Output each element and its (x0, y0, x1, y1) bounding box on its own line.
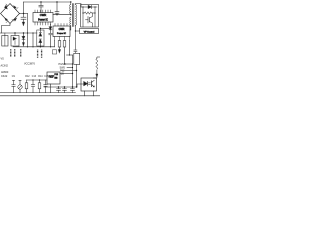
svg-text:ACIN2: ACIN2 (1, 65, 9, 68)
junction node (32, 79, 33, 80)
resistor R4 (63, 41, 66, 65)
ground (22, 22, 24, 26)
U1 bottom pins (35, 22, 51, 25)
cap C3 (12, 80, 16, 92)
diode D5 (49, 24, 53, 47)
REF box U3 (47, 72, 60, 84)
vertical x27 branch (27, 14, 29, 47)
wire opto bottom1 (84, 91, 86, 96)
wire aux winding to U2 (69, 26, 72, 30)
vertical x33 branch (32, 33, 34, 47)
wire secondary top (75, 4, 81, 7)
junction node (39, 79, 40, 80)
wire mid bottom (13, 46, 55, 48)
bridge rectifier BR1 (1, 4, 20, 24)
wire bridge+ output (20, 13, 28, 15)
svg-text:I1B: I1B (60, 72, 64, 75)
wire secondary bottom (75, 25, 79, 31)
transformer T1 (70, 2, 77, 27)
cap C5 (44, 80, 48, 93)
IC U1 startup box (33, 13, 53, 23)
wire SW5 (67, 67, 73, 69)
ground rail 2 (0, 95, 100, 97)
wire PGND (65, 63, 73, 65)
svg-text:A0860: A0860 (1, 71, 9, 74)
junction node (70, 1, 71, 2)
junction node (94, 6, 95, 7)
svg-text:CWR: CWR (59, 28, 65, 31)
junction node (64, 86, 65, 87)
varistor RV1 (18, 80, 22, 92)
wire opto left (77, 84, 81, 87)
pin label texts (1, 58, 66, 78)
capacitor C10 (63, 87, 67, 93)
junction node (72, 67, 73, 68)
U2 top pins (55, 24, 67, 27)
snubber block box (81, 5, 99, 28)
junction node (82, 6, 83, 7)
wire secondary return down (74, 31, 76, 50)
U1 top pins (35, 10, 51, 13)
wire bridge- to mid rail (2, 24, 11, 34)
resistor R5 (38, 80, 41, 93)
rotated tiny labels (11, 49, 42, 58)
diode D2 (88, 5, 91, 8)
wire down right1 (76, 71, 78, 88)
diode D4 (22, 33, 25, 46)
wire snub top (40, 27, 50, 29)
svg-text:C15: C15 (44, 76, 49, 78)
component id labels bottom (12, 76, 49, 78)
svg-text:Power IC: Power IC (57, 32, 66, 35)
U2 bottom pins (55, 37, 70, 41)
svg-text:VCC3876: VCC3876 (24, 62, 35, 65)
capacitor C11 (71, 87, 75, 93)
svg-text:R14: R14 (38, 76, 43, 78)
output bus (44, 86, 77, 88)
resistor R2 zigzag (83, 12, 95, 14)
wire snubber right (94, 7, 96, 27)
junction node (14, 32, 15, 33)
svg-text:Power IC: Power IC (38, 18, 48, 21)
capacitor C8 (74, 50, 77, 53)
capacitor C9 (57, 87, 61, 93)
vertical label smudge (20, 49, 22, 57)
vertical label smudge (10, 49, 12, 57)
vertical label smudge (41, 50, 43, 58)
wire pin1 (54, 41, 56, 47)
choke L1 (2, 36, 8, 47)
junction node (72, 73, 73, 74)
junction node (40, 28, 41, 29)
junction node (50, 46, 51, 47)
vertical label smudge (14, 49, 16, 57)
module D3 box (11, 36, 19, 47)
capacitor C1 (21, 2, 26, 22)
right bus (72, 55, 74, 87)
junction node (27, 32, 28, 33)
junction node (58, 86, 59, 87)
svg-text:CWR: CWR (40, 13, 46, 17)
svg-text:CK22: CK22 (1, 75, 8, 78)
cap C4 (31, 80, 35, 93)
wire HV rail (24, 1, 71, 3)
svg-text:VS: VS (1, 58, 5, 61)
wire stub choke (5, 33, 15, 36)
svg-text:C13: C13 (32, 76, 37, 78)
junction node (32, 46, 33, 47)
transistor Q1 (86, 13, 93, 27)
junction node (72, 63, 73, 64)
diode stack box (37, 28, 44, 47)
junction node (94, 12, 95, 13)
junction node (70, 14, 71, 15)
junction node (23, 32, 24, 33)
wire opto bottom2 (92, 91, 94, 96)
resistor R7 zigzag (93, 57, 100, 78)
ground rail 1 (0, 92, 76, 94)
output device box (74, 53, 80, 64)
optocoupler U4 (81, 78, 97, 91)
junction node (69, 54, 70, 55)
terminal tick (19, 79, 21, 81)
wire pin4 down (69, 41, 71, 56)
wire ref1 (61, 70, 77, 72)
junction node (75, 30, 76, 31)
junction node (27, 46, 28, 47)
terminal tick (12, 79, 14, 81)
resistor R8 (25, 80, 28, 93)
junction node (23, 13, 24, 14)
wire box bottom (76, 65, 78, 71)
junction node (40, 46, 41, 47)
wire snubber left (82, 7, 84, 27)
control label box (80, 29, 99, 34)
svg-text:VF Control: VF Control (84, 30, 95, 33)
wire ref2 (60, 73, 73, 75)
wire inside snubber top (81, 6, 97, 8)
wire primary return (53, 14, 71, 16)
resistor R3 (58, 41, 61, 54)
capacitor C6 on x57 (55, 2, 59, 15)
junction node (76, 86, 77, 87)
small part box (52, 50, 56, 54)
junction node (56, 14, 57, 15)
capacitor C2 (39, 2, 43, 13)
IC U2 switcher box (53, 26, 70, 37)
vertical label smudge (37, 50, 39, 58)
junction node (76, 70, 77, 71)
junction node (56, 1, 57, 2)
junction node (40, 1, 41, 2)
wire ref bottom (50, 84, 52, 93)
svg-text:P12: P12 (55, 74, 58, 76)
junction node (72, 86, 73, 87)
left small rail (27, 79, 48, 81)
junction node (32, 32, 33, 33)
svg-text:R12: R12 (25, 76, 30, 78)
wire y55 (67, 54, 73, 56)
left mid rail (0, 32, 37, 34)
junction node (82, 12, 83, 13)
